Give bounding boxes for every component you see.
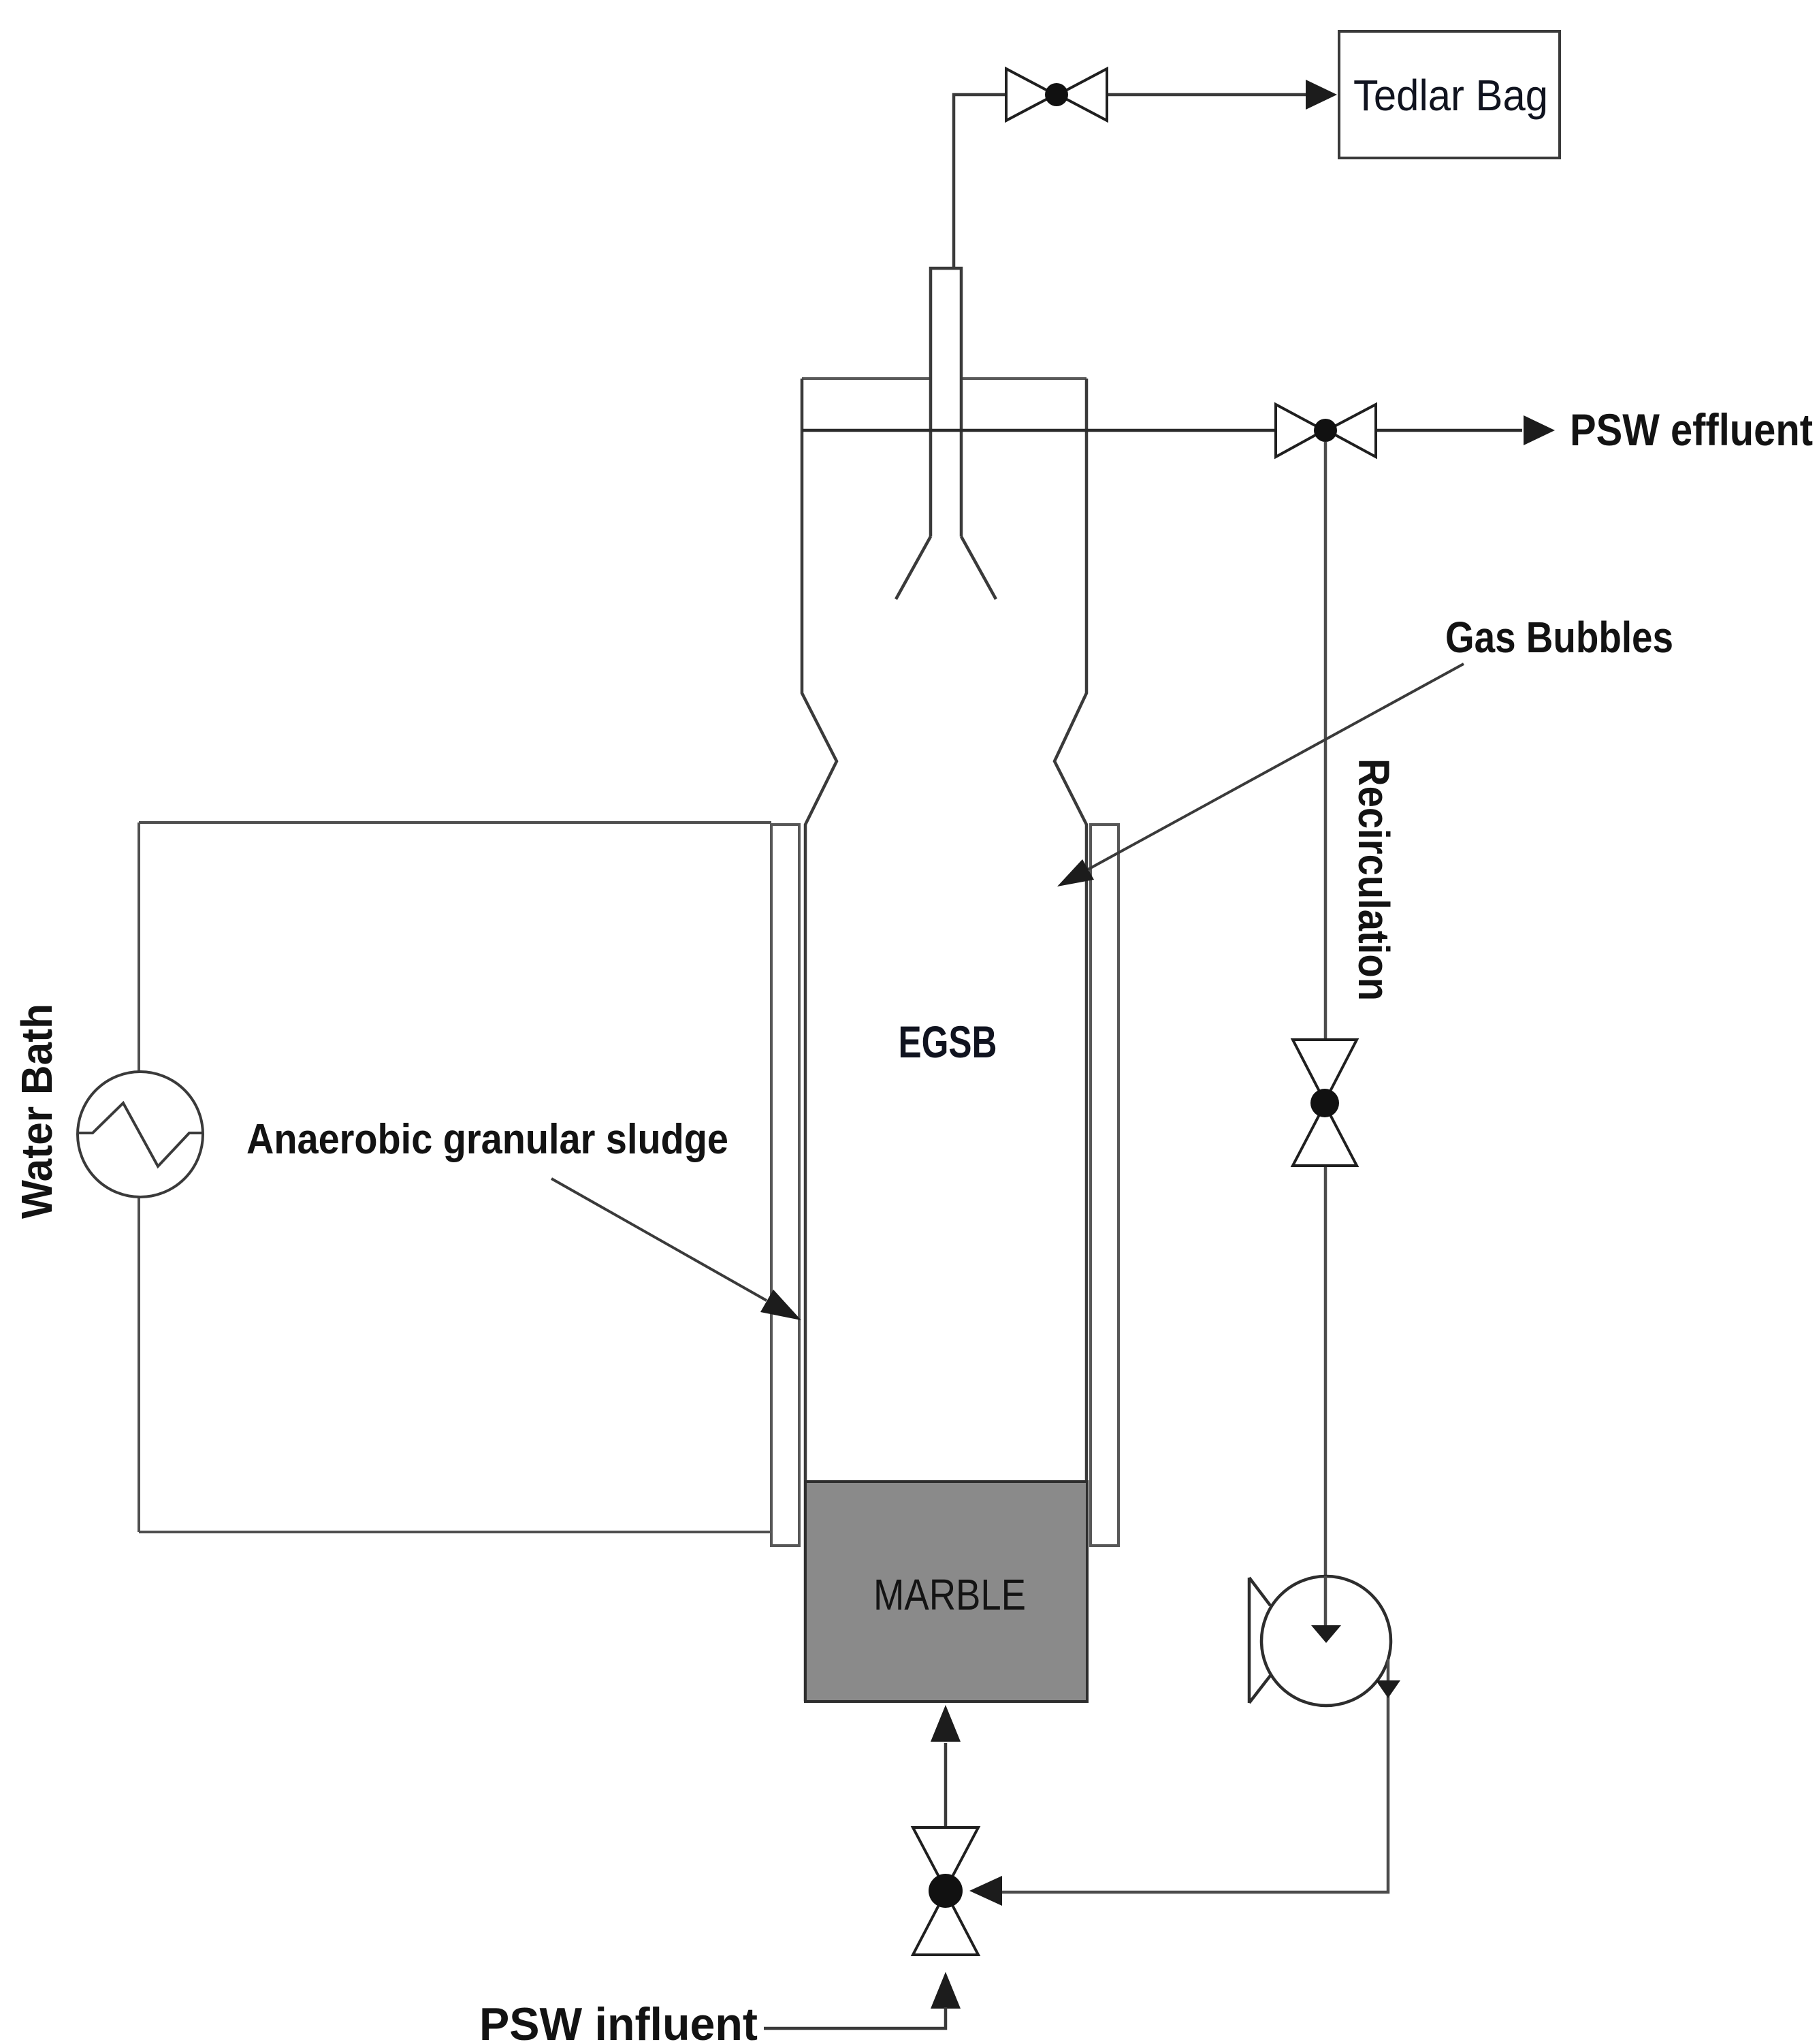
svg-text:EGSB: EGSB [899, 1017, 997, 1067]
svg-text:Anaerobic granular sludge: Anaerobic granular sludge [246, 1116, 728, 1163]
svg-text:PSW effluent: PSW effluent [1570, 404, 1813, 455]
svg-text:Water Bath: Water Bath [12, 1004, 61, 1219]
svg-text:Recirculation: Recirculation [1349, 758, 1398, 1001]
svg-text:MARBLE: MARBLE [873, 1570, 1026, 1619]
svg-text:Tedlar Bag: Tedlar Bag [1353, 71, 1548, 120]
svg-text:Gas Bubbles: Gas Bubbles [1445, 613, 1673, 662]
svg-text:PSW influent: PSW influent [479, 1998, 758, 2044]
